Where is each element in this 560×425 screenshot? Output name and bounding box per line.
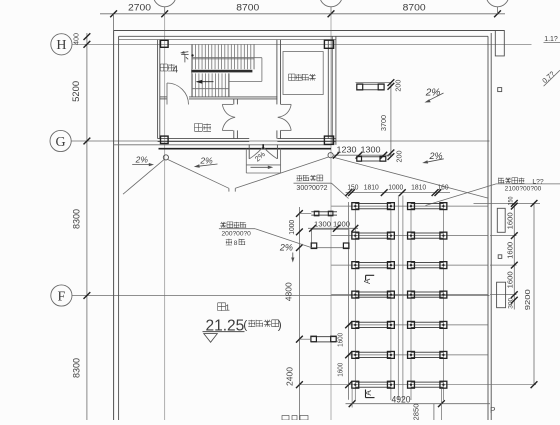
svg-text:2850: 2850 xyxy=(412,404,421,421)
stair block west wall xyxy=(158,40,160,139)
cut text fragments bottom xyxy=(282,416,308,421)
label vestibule xyxy=(195,124,212,132)
grid centreline x=164.7 xyxy=(164,15,166,421)
axis line G xyxy=(71,140,490,142)
svg-text:4920: 4920 xyxy=(392,395,411,406)
dimension text 8300 upper xyxy=(71,209,81,229)
svg-text:8300: 8300 xyxy=(71,358,81,378)
canopy door jambs xyxy=(249,145,277,159)
machine room west wall xyxy=(277,40,281,139)
valley line right-in xyxy=(235,157,328,188)
dimension text 150 xyxy=(347,183,358,192)
svg-text:A: A xyxy=(363,278,372,284)
svg-text:1600: 1600 xyxy=(508,242,515,259)
equipment foundation row 3 xyxy=(352,262,447,269)
stair small arrow xyxy=(180,51,188,54)
equipment foundation row 7 xyxy=(352,381,447,388)
roof drain right xyxy=(328,153,333,158)
column G-2 xyxy=(161,136,169,143)
dimension text 1810 right xyxy=(411,183,426,192)
stair handrail xyxy=(191,70,252,73)
svg-text:3700: 3700 xyxy=(381,115,388,131)
svg-text:1600: 1600 xyxy=(337,333,344,347)
label elevator machine room xyxy=(289,74,316,81)
pilaster right upper xyxy=(497,208,505,232)
svg-text:8700: 8700 xyxy=(236,2,259,12)
level triangle xyxy=(204,334,218,343)
dimension text 1600 right-a xyxy=(508,212,515,229)
foundation column construction lines xyxy=(355,196,443,401)
equipment foundation row 6 xyxy=(352,351,447,358)
axis bubble top 2 xyxy=(153,0,176,14)
pilaster right lower xyxy=(497,282,506,308)
axis line H xyxy=(72,43,532,45)
svg-text:150: 150 xyxy=(347,183,358,192)
svg-text:300: 300 xyxy=(508,298,515,309)
dimension chain top (2700, 8700, 8700) xyxy=(100,10,505,17)
svg-text:8300: 8300 xyxy=(71,209,81,229)
slope label 5 xyxy=(279,243,295,263)
outer wall right inner xyxy=(487,36,489,420)
dimension text 2400 xyxy=(285,366,294,386)
svg-text:1300: 1300 xyxy=(314,219,331,228)
dim chain 150-1810-1000-1810-160 xyxy=(345,189,450,196)
dim chain right 9200 xyxy=(531,200,538,388)
stair landing break lines xyxy=(192,58,262,89)
canopy slope arrow xyxy=(251,166,274,169)
equipment foundation row 4 xyxy=(352,291,447,298)
valley line left-in xyxy=(168,160,229,189)
dimension text 1300 small xyxy=(314,219,331,228)
dimension text 1600 right-c xyxy=(508,271,515,288)
dimension text 1000 vertical xyxy=(289,220,296,235)
slope label 2 xyxy=(194,156,218,168)
svg-text:1000: 1000 xyxy=(289,220,296,235)
wall hook mark right xyxy=(498,88,502,92)
interior wall stub lower xyxy=(234,130,238,138)
svg-text:200?00?0: 200?00?0 xyxy=(222,231,252,238)
svg-text:P: P xyxy=(490,406,495,415)
dimension text 4800 xyxy=(284,282,293,302)
equipment foundation row 1 xyxy=(352,203,447,210)
dimension text 300 right xyxy=(508,298,515,309)
roof slab edge thick xyxy=(159,148,332,150)
dim chain right 150-1600s xyxy=(474,200,541,310)
dimension text 3700 xyxy=(381,115,388,131)
svg-text:(: ( xyxy=(243,318,247,332)
svg-text:H: H xyxy=(56,38,66,53)
axis bubble F xyxy=(51,285,72,306)
axis line F xyxy=(72,295,490,297)
block bottom wall xyxy=(158,139,336,142)
canopy box xyxy=(246,149,280,173)
valley line left-out xyxy=(123,159,164,194)
parapet corner top right xyxy=(491,31,504,56)
svg-text:9200: 9200 xyxy=(523,289,532,310)
column H-2 xyxy=(161,40,169,47)
double door right leaf top xyxy=(278,104,291,117)
svg-text:1230: 1230 xyxy=(337,145,358,154)
outer wall left xyxy=(113,31,115,421)
outer wall right outer xyxy=(490,33,492,420)
dimension text 150 right xyxy=(508,196,515,205)
outer wall left inner face xyxy=(118,36,120,420)
svg-text:L??: L?? xyxy=(532,179,544,186)
column G-3 xyxy=(324,136,333,144)
svg-text:F: F xyxy=(58,289,66,304)
slope label 4 lower right xyxy=(422,151,444,164)
stair label down xyxy=(181,54,188,62)
svg-text:1810: 1810 xyxy=(411,183,426,192)
svg-text:160: 160 xyxy=(438,183,449,192)
axis bubble top 4 xyxy=(486,0,509,14)
svg-text:2%: 2% xyxy=(199,156,213,166)
svg-text:1600: 1600 xyxy=(508,212,515,229)
svg-text:300?00?2: 300?00?2 xyxy=(296,185,327,192)
inner wall line y=39.6 xyxy=(119,39,336,41)
dimension text 1300 xyxy=(361,145,382,154)
axis bubble top 3 xyxy=(320,0,343,14)
dimension text 1000 mid xyxy=(388,183,403,192)
level suffix xyxy=(243,318,281,332)
svg-text:4800: 4800 xyxy=(284,282,293,302)
svg-text:2%: 2% xyxy=(425,88,441,99)
svg-text:1: 1 xyxy=(225,303,230,312)
dimension text 160 xyxy=(438,183,449,192)
svg-text:2100?00?00: 2100?00?00 xyxy=(505,186,542,193)
double door right leaf bottom xyxy=(278,117,291,130)
dimension text 200 lower xyxy=(396,150,403,162)
dimension text 2700 xyxy=(128,2,151,12)
level text 21.25 xyxy=(206,317,245,334)
outer wall top inner face xyxy=(119,35,488,37)
dimension text 200 upper xyxy=(395,79,402,91)
block east wall xyxy=(328,36,336,145)
dim chain vertical 200-3700-200 xyxy=(388,79,395,160)
stair south wall xyxy=(160,97,277,99)
svg-text:2700: 2700 xyxy=(128,2,151,12)
svg-text:400: 400 xyxy=(72,33,81,45)
svg-text:200: 200 xyxy=(396,150,403,162)
column H-3 xyxy=(324,40,333,48)
double door left leaf bottom xyxy=(222,117,235,130)
canopy slope text xyxy=(253,149,267,163)
dimension text 5200 xyxy=(71,81,81,102)
svg-text:5200: 5200 xyxy=(71,81,81,102)
svg-text:200: 200 xyxy=(395,79,402,91)
section mark A upper xyxy=(363,275,374,284)
dimension text 2850 xyxy=(412,404,421,421)
outer wall top xyxy=(114,30,505,32)
label embedded plate right xyxy=(294,175,349,199)
grid line extension stub left xyxy=(113,14,115,31)
slope label 3 upper right xyxy=(425,88,444,103)
plate rectangle xyxy=(311,229,349,248)
dimension text 1600 left-b xyxy=(337,363,344,377)
axis bubble G xyxy=(50,130,71,151)
vestibule west door swing xyxy=(167,83,189,105)
svg-text:1600: 1600 xyxy=(508,271,515,288)
valley line right-out xyxy=(332,157,487,198)
dim chain vertical 1000-4800-2400 xyxy=(296,207,349,420)
equipment foundation row 2 xyxy=(352,232,447,239)
svg-text:8: 8 xyxy=(234,240,238,247)
svg-text:4: 4 xyxy=(173,65,179,76)
dim line 2850 xyxy=(434,404,442,420)
svg-text:1300: 1300 xyxy=(361,145,382,154)
axis bubble H xyxy=(51,34,72,55)
section mark A lower xyxy=(364,390,375,398)
interior wall stub upper xyxy=(234,99,238,105)
stair newel dot xyxy=(191,54,193,56)
label floor 1 xyxy=(218,303,231,313)
svg-text:8700: 8700 xyxy=(403,2,426,12)
dim chain left 1600s xyxy=(345,202,352,400)
embedded plate upper xyxy=(357,84,384,90)
dimension text 1810 left xyxy=(364,183,379,192)
embedded plate bar A xyxy=(311,211,337,216)
svg-text:): ) xyxy=(278,318,282,332)
mark P bottom right xyxy=(490,406,495,415)
svg-text:G: G xyxy=(56,135,66,150)
label equipment foundation xyxy=(426,178,560,206)
dimension text 1000 small xyxy=(333,219,350,228)
svg-text:1000: 1000 xyxy=(388,183,403,192)
dimension text 1230 xyxy=(337,145,358,154)
level label 1.1 xyxy=(544,36,560,43)
svg-text:1600: 1600 xyxy=(337,363,344,377)
dimension text 8300 lower xyxy=(71,358,81,378)
svg-text:150: 150 xyxy=(508,196,515,205)
equipment foundation row 5 xyxy=(352,321,447,328)
stair flight edges xyxy=(192,45,254,97)
label embedded plate 8pcs xyxy=(219,222,312,248)
dimension text 400 xyxy=(72,33,81,45)
elevator machine equipment outline xyxy=(283,52,323,95)
svg-text:2%: 2% xyxy=(279,243,293,253)
dim line plate upper xyxy=(356,82,392,84)
stair direction arrow xyxy=(196,80,214,84)
svg-text:2%: 2% xyxy=(135,155,149,165)
svg-text:1000: 1000 xyxy=(333,219,350,228)
double door left leaf top xyxy=(222,104,235,117)
canopy door leaves xyxy=(249,144,277,159)
stair well edge xyxy=(229,58,262,82)
vestibule west door leaf xyxy=(166,83,168,105)
embedded plate bar C xyxy=(311,336,336,342)
dimension text 8700 left xyxy=(236,2,259,12)
dimension text 9200 xyxy=(523,289,532,310)
svg-text:1810: 1810 xyxy=(364,183,379,192)
svg-text:A: A xyxy=(364,390,373,396)
grid centreline x=331 xyxy=(330,15,332,421)
foundation row construction lines xyxy=(331,206,536,385)
dimension chain left xyxy=(84,33,91,420)
small plate right xyxy=(498,255,502,259)
dimension text 1600 left-a xyxy=(337,333,344,347)
dimension text 1600 right-b xyxy=(508,242,515,259)
level underline xyxy=(203,331,245,333)
slope label 1 xyxy=(132,155,154,167)
dim chain 1230-1300 xyxy=(333,152,392,159)
label stair-4 xyxy=(160,64,178,76)
embedded plate mid xyxy=(357,156,386,161)
roof edge line y=144.8 xyxy=(114,144,331,146)
dim chain 1300-1000 xyxy=(308,225,358,232)
stair flight upper treads xyxy=(192,45,254,70)
stair flight lower treads xyxy=(192,73,228,96)
valley scupper xyxy=(229,188,235,191)
dimension text 8700 right xyxy=(403,2,426,12)
roof drain left xyxy=(163,155,168,160)
dim chain bottom 4920 xyxy=(346,389,491,408)
level label 0.7 diagonal xyxy=(542,70,560,86)
dimension text 4920 xyxy=(392,395,411,406)
svg-text:2400: 2400 xyxy=(285,366,294,386)
